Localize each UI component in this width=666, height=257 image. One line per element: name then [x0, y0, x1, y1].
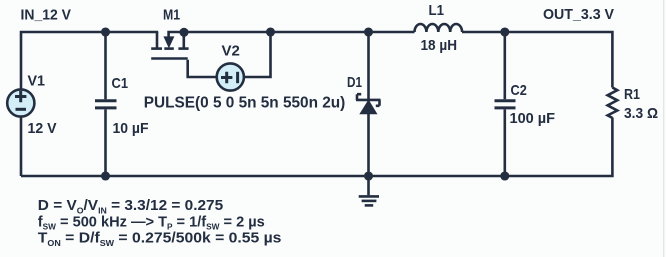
diode D1 (schottky)	[356, 94, 381, 114]
wire M1 source lead	[156, 32, 159, 48]
node bottom rail at C1	[101, 171, 110, 180]
svg-text:C2: C2	[511, 82, 527, 99]
wire D1 upper lead	[367, 32, 370, 99]
node bottom rail at ground	[364, 171, 373, 180]
node top rail at C1	[101, 27, 110, 36]
svg-text:D1: D1	[347, 74, 362, 91]
annotation switching frequency formula	[38, 214, 265, 232]
wire top rail from M1 body stem to L1	[169, 32, 415, 38]
wire V2 right terminal up to top rail	[245, 32, 271, 77]
transistor M1	[151, 34, 188, 59]
svg-text:R1: R1	[624, 86, 640, 103]
svg-text:10 µF: 10 µF	[113, 120, 149, 137]
wire D1 lower lead to ground	[367, 101, 370, 195]
resistor R1	[608, 88, 618, 118]
svg-text:OUT_3.3 V: OUT_3.3 V	[543, 6, 614, 23]
wire C1 lower lead	[104, 110, 107, 177]
wire R1 bottom and bottom rail	[21, 118, 612, 177]
annotation on-time formula	[38, 230, 282, 248]
capacitor C1	[95, 101, 117, 108]
svg-text:D = VO/VIN = 3.3/12 = 0.275: D = VO/VIN = 3.3/12 = 0.275	[38, 197, 224, 215]
svg-text:TON = D/fSW = 0.275/500k = 0.5: TON = D/fSW = 0.275/500k = 0.55 µs	[38, 230, 282, 248]
svg-text:V1: V1	[28, 73, 46, 90]
wire C2 upper lead	[503, 32, 506, 99]
svg-text:C1: C1	[112, 75, 129, 92]
wire top rail from L1 to OUT corner down to R1	[462, 32, 612, 88]
svg-text:PULSE(0 5 0 5n 5n 550n 2u): PULSE(0 5 0 5n 5n 550n 2u)	[144, 95, 345, 112]
svg-text:18 µH: 18 µH	[421, 37, 458, 54]
node top rail at M1 drain	[179, 28, 188, 37]
wire left branch lower (V1 bottom to bottom rail)	[20, 118, 23, 177]
inductor L1	[415, 24, 463, 32]
svg-text:L1: L1	[429, 2, 445, 19]
node top rail at C2	[500, 27, 509, 36]
svg-text:IN_12 V: IN_12 V	[21, 6, 72, 23]
annotation duty cycle formula	[38, 197, 224, 215]
wire left branch upper and top rail to M1 source lead	[21, 32, 158, 89]
svg-text:V2: V2	[222, 42, 240, 59]
svg-text:3.3 Ω: 3.3 Ω	[624, 105, 658, 122]
voltage source V2	[217, 63, 244, 90]
svg-text:100 µF: 100 µF	[510, 110, 556, 127]
wire C1 upper lead	[104, 32, 107, 99]
voltage source V1	[7, 89, 34, 116]
node top rail at V2	[266, 27, 275, 36]
capacitor C2	[495, 101, 516, 108]
node top rail at D1	[364, 27, 373, 36]
svg-text:M1: M1	[163, 7, 180, 24]
wire C2 lower lead	[503, 110, 506, 177]
ground	[359, 196, 379, 205]
svg-text:12 V: 12 V	[28, 120, 57, 137]
wire M1 gate to V2 left terminal	[188, 60, 216, 77]
node bottom rail at C2	[500, 171, 509, 180]
right page edge	[663, 0, 664, 257]
